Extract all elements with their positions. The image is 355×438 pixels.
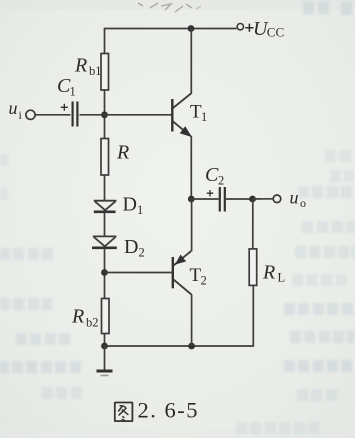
svg-text:L: L [278, 271, 286, 285]
wire Rb2 to ground node [104, 334, 106, 347]
wire R to D1 [104, 175, 106, 201]
label R [116, 142, 129, 164]
caption 图 2.6-5 [115, 397, 199, 422]
wire collector T1 to rail [190, 29, 192, 95]
diode D2 [92, 236, 117, 247]
node RL junction [249, 196, 256, 203]
svg-text:CC: CC [267, 25, 284, 40]
ground [97, 371, 113, 376]
wire emitter T2 up to output node [191, 199, 193, 251]
svg-text:u: u [290, 188, 299, 208]
capacitor C1 [73, 102, 78, 127]
diode D1 [94, 201, 117, 212]
wire C1 to node A and on to T1 base [80, 114, 172, 116]
label Rb1 [74, 55, 102, 79]
svg-text:D: D [124, 236, 138, 258]
svg-text:R: R [116, 142, 129, 164]
label Rb2 [71, 306, 99, 330]
capacitor C2 [220, 187, 225, 212]
svg-text:2: 2 [218, 174, 224, 188]
label +Ucc [245, 18, 284, 40]
terminal ui [26, 110, 35, 119]
svg-text:1: 1 [70, 85, 76, 99]
resistor Rb2 [102, 299, 110, 334]
resistor R [101, 139, 109, 176]
label C2 [205, 164, 224, 188]
wire node B to T2 base [105, 272, 172, 274]
svg-text:o: o [300, 196, 306, 210]
wire input terminal to C1 [36, 114, 71, 116]
node top junction (collector T1 to rail) [188, 25, 195, 32]
label uo [290, 188, 307, 211]
svg-text:R: R [262, 262, 275, 284]
svg-text:1: 1 [137, 203, 143, 217]
wire Rb1 to node A [104, 90, 106, 139]
node B (base T2 junction) [101, 269, 108, 276]
label + polarity C1 [61, 104, 68, 111]
wire left vertical: rail to Rb1 [104, 28, 106, 54]
svg-text:u: u [9, 98, 18, 118]
svg-text:D: D [123, 194, 137, 216]
label ui [9, 98, 23, 122]
node bottom-left junction [101, 343, 108, 350]
node output junction (emitters / C2) [188, 196, 195, 203]
label C1 [57, 75, 76, 99]
transistor T2 [173, 251, 192, 295]
wire top supply rail [105, 28, 237, 30]
wire RL node down to RL [252, 199, 254, 249]
resistor RL [249, 249, 257, 286]
label D2 [124, 236, 145, 260]
wire emitter T1 to output node [190, 136, 192, 199]
wire D1 to D2 [104, 212, 106, 237]
svg-text:2. 6-5: 2. 6-5 [138, 397, 200, 422]
resistor Rb1 [101, 54, 109, 91]
wire to output terminal [253, 198, 273, 200]
label T2 [190, 265, 207, 288]
svg-text:b1: b1 [89, 64, 102, 78]
svg-text:C: C [205, 164, 219, 186]
svg-text:2: 2 [201, 274, 207, 288]
wire C2 to RL node [226, 198, 253, 200]
svg-text:b2: b2 [86, 316, 99, 330]
wire ground stub [104, 346, 106, 370]
wire D2 to node B [104, 248, 106, 299]
label + polarity C2 [207, 190, 213, 196]
terminal +Ucc [237, 24, 243, 30]
svg-text:1: 1 [201, 110, 207, 124]
svg-text:R: R [74, 55, 87, 77]
wire bottom rail to RL [105, 285, 254, 346]
terminal uo [273, 195, 281, 203]
wire collector T2 down to rail [191, 294, 193, 346]
node A (base T1 / C1 junction) [101, 111, 108, 118]
label T1 [190, 102, 207, 125]
label D1 [123, 194, 144, 218]
svg-text:R: R [71, 306, 84, 328]
wire node to C2 [191, 198, 218, 200]
svg-text:2: 2 [139, 246, 145, 260]
label RL [262, 262, 285, 285]
transistor T1 [172, 94, 191, 137]
node T2 collector to rail [188, 343, 195, 350]
